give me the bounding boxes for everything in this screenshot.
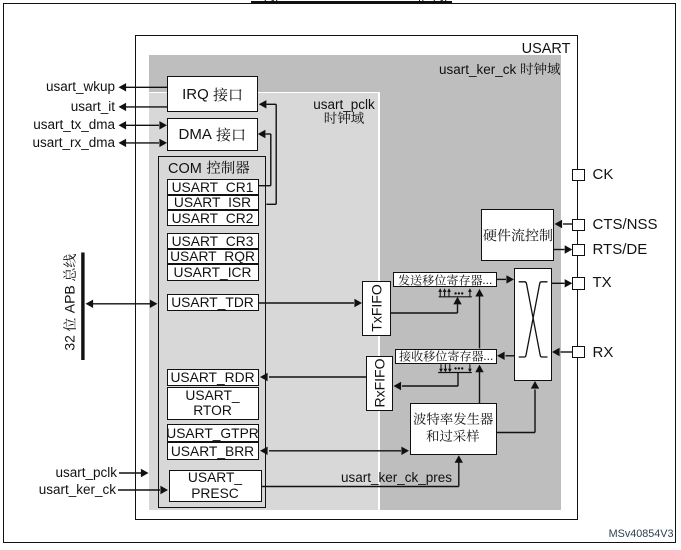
pin square CK <box>572 169 585 182</box>
usart_ker_ck clock domain (dark gray region) <box>149 55 561 510</box>
wire usart_it (IRQ interface to pin, left arrow) <box>126 106 167 108</box>
register USART_PRESC <box>169 470 262 502</box>
register USART_RQR <box>167 249 259 264</box>
register USART_GTPR <box>167 424 259 442</box>
wire usart_rx_dma (bidirectional arrow to DMA interface) <box>126 142 159 144</box>
label usart_pclk clock domain line1 <box>313 97 375 113</box>
label usart_tx_dma <box>33 117 115 133</box>
COM controller outer box <box>158 156 266 508</box>
wire registers to IRQ interface (feedback) <box>259 100 267 108</box>
register USART_ISR <box>167 195 259 211</box>
hardware flow control box <box>481 209 554 261</box>
label pin CK <box>593 166 614 184</box>
label COM controller <box>168 160 249 178</box>
receive shift register parallel-out arrows <box>438 372 472 374</box>
caption glyph fragment 框图 <box>416 0 452 4</box>
wire usart_ker_ck into USART_PRESC <box>118 489 160 491</box>
receive shift register box <box>395 349 497 364</box>
USART block outer box <box>135 35 578 520</box>
wire pin-swap block to TX pin <box>552 282 565 284</box>
label usart_it <box>71 99 115 115</box>
wire baud rate generator clock to receive shift register <box>479 371 481 403</box>
label usart_ker_ck clock domain <box>439 62 561 78</box>
wire registers to DMA interface (feedback) <box>258 130 266 138</box>
label pin TX <box>593 274 612 292</box>
label USART <box>522 41 571 58</box>
register USART_ICR <box>167 264 259 281</box>
wire USART_BRR to baud rate generator (bidirectional) <box>269 450 401 452</box>
TxFIFO box <box>362 281 391 336</box>
baud rate generator and oversampling box <box>410 403 497 455</box>
register USART_RTOR <box>167 387 259 420</box>
label usart_ker_ck_pres <box>341 470 452 486</box>
caption glyph fragment 图 <box>263 0 283 4</box>
wire usart_tx_dma (bidirectional arrow to DMA interface) <box>126 124 159 126</box>
label usart_pclk clock domain line2 <box>324 111 365 127</box>
wire receive shift register to RxFIFO <box>457 373 459 387</box>
register USART_BRR <box>167 442 259 460</box>
register USART_RDR <box>167 369 259 386</box>
pin square TX <box>572 277 585 290</box>
wire APB bus to COM controller (bidirectional arrow) <box>93 303 150 305</box>
wire baud rate generator to pin-swap block <box>497 432 535 434</box>
wire CTS/NSS pin to hardware flow control <box>563 223 572 225</box>
label usart_ker_ck <box>39 482 116 498</box>
wire USART_TDR to TxFIFO <box>259 302 355 304</box>
label 32-bit APB bus (rotated) <box>61 253 78 350</box>
register USART_CR2 <box>167 210 259 226</box>
usart_pclk clock domain (light gray region) <box>149 92 380 510</box>
wire pin-swap block to receive shift register <box>506 355 515 357</box>
label pin RX <box>593 344 614 362</box>
IRQ interface box <box>167 76 258 112</box>
pin square RTS/DE <box>572 244 585 257</box>
pin square RX <box>572 346 585 359</box>
wire usart_pclk into pclk clock domain <box>119 472 141 474</box>
RxFIFO box <box>366 356 393 411</box>
label pin CTS/NSS <box>593 216 658 234</box>
wire RxFIFO to USART_RDR <box>269 376 366 378</box>
wire hardware flow control to RTS/DE pin <box>554 249 565 251</box>
label pin RTS/DE <box>593 241 648 259</box>
wire usart_ker_ck_pres from USART_PRESC to baud rate generator <box>262 486 459 488</box>
label usart_pclk <box>55 465 117 481</box>
wire TxFIFO to transmit shift register <box>391 312 458 314</box>
DMA interface box <box>167 118 258 151</box>
wire transmit shift register to pin-swap block <box>497 278 506 280</box>
label MSv40854V3 <box>609 528 674 541</box>
transmit shift register parallel-load arrows <box>439 296 472 298</box>
register USART_CR1 <box>167 179 259 194</box>
register USART_TDR <box>167 294 259 311</box>
wire RX pin to pin-swap block <box>561 351 573 353</box>
label usart_rx_dma <box>32 135 115 151</box>
wire baud rate generator clock to transmit shift register <box>479 296 481 348</box>
wire usart_wkup (IRQ interface to pin, left arrow) <box>126 86 167 88</box>
transmit shift register box <box>393 272 497 288</box>
register USART_CR3 <box>167 233 259 249</box>
pin square CTS/NSS <box>572 219 585 232</box>
32-bit APB bus vertical bar <box>81 253 84 361</box>
figure caption underline (cut off at top edge) <box>251 1 452 3</box>
label usart_wkup <box>46 79 115 95</box>
TX/RX pin swap block <box>514 268 552 381</box>
